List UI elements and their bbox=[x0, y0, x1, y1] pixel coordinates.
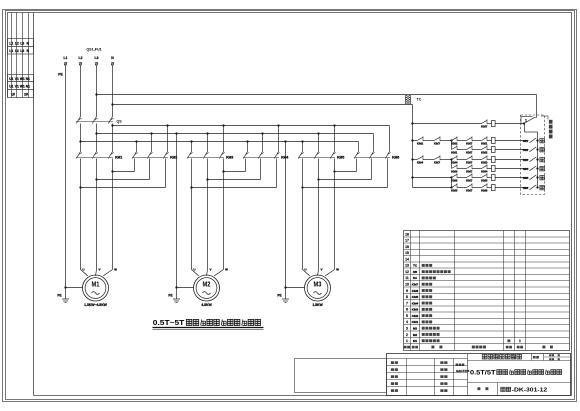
svg-text:KM7: KM7 bbox=[466, 151, 473, 155]
terminal strip XT incoming supply bbox=[8, 13, 34, 98]
pushbutton SB5 bbox=[523, 175, 539, 180]
wire PE down to M1 bbox=[65, 65, 67, 288]
svg-text:16: 16 bbox=[405, 245, 409, 249]
svg-text:KM4: KM4 bbox=[412, 301, 419, 305]
tap L3 to transformer primary (lower) bbox=[111, 103, 412, 105]
svg-text:L3: L3 bbox=[95, 56, 99, 60]
svg-text:KM6: KM6 bbox=[412, 289, 419, 293]
station name 皖东电力排灌站 bbox=[482, 354, 487, 359]
svg-text:N1: N1 bbox=[26, 85, 30, 89]
coil KM7 bbox=[492, 121, 496, 127]
ground symbol M2 bbox=[168, 288, 180, 303]
pushbutton SB3 bbox=[523, 157, 539, 162]
svg-text:KM7: KM7 bbox=[412, 283, 419, 287]
control row KM4 bbox=[451, 164, 491, 173]
svg-text:KM4: KM4 bbox=[281, 156, 288, 160]
svg-text:W: W bbox=[225, 268, 228, 272]
wire coil KM4 to button bbox=[495, 168, 529, 170]
svg-text:L2: L2 bbox=[15, 42, 19, 46]
svg-text:KM7: KM7 bbox=[434, 142, 441, 146]
svg-text:W1: W1 bbox=[20, 77, 25, 81]
title block texts bbox=[391, 354, 562, 393]
contactor KM5 bbox=[298, 124, 344, 159]
svg-text:KM4: KM4 bbox=[451, 161, 458, 165]
svg-text:1.5KW: 1.5KW bbox=[312, 303, 323, 307]
svg-text:N1: N1 bbox=[26, 77, 30, 81]
svg-text:V1: V1 bbox=[15, 77, 19, 81]
svg-text:W1: W1 bbox=[20, 85, 25, 89]
svg-text:SB4: SB4 bbox=[523, 167, 529, 171]
wire L2 to QS bbox=[96, 65, 98, 114]
svg-text:10: 10 bbox=[405, 283, 409, 287]
coil KM2 bbox=[492, 147, 496, 153]
svg-text:M1: M1 bbox=[413, 339, 418, 343]
control row KM5 bbox=[413, 173, 492, 182]
svg-text:PE: PE bbox=[277, 293, 281, 297]
svg-text:1.5KW~4.5KW: 1.5KW~4.5KW bbox=[84, 303, 108, 307]
motor M1 bbox=[83, 275, 109, 307]
terminal strip labels bbox=[9, 42, 30, 97]
drawing caption 0.5T~5T... bbox=[153, 318, 264, 329]
svg-text:W: W bbox=[336, 268, 339, 272]
svg-text:KM4: KM4 bbox=[417, 161, 424, 165]
wire coil KM1 to button bbox=[495, 140, 529, 142]
svg-text:L1: L1 bbox=[64, 56, 68, 60]
svg-text:SB6: SB6 bbox=[523, 186, 529, 190]
svg-text:KM5: KM5 bbox=[451, 189, 458, 193]
crossover wiring KM3/KM4 bbox=[190, 159, 276, 189]
crossover wiring KM5/KM6 bbox=[301, 159, 387, 189]
svg-text:M1: M1 bbox=[92, 280, 100, 289]
svg-text:KM1: KM1 bbox=[115, 156, 122, 160]
svg-text:M2: M2 bbox=[203, 280, 211, 289]
control left rail bbox=[411, 105, 413, 188]
svg-text:17: 17 bbox=[405, 239, 409, 243]
wire L3 to QS bbox=[112, 65, 114, 114]
svg-text:SA: SA bbox=[413, 276, 418, 280]
svg-text:KM3: KM3 bbox=[226, 156, 233, 160]
wires QS to KM1 bbox=[81, 124, 113, 149]
svg-text:9: 9 bbox=[406, 289, 408, 293]
svg-text:2: 2 bbox=[406, 333, 408, 337]
svg-text:1#: 1# bbox=[11, 93, 15, 97]
svg-text:L1: L1 bbox=[9, 49, 13, 53]
svg-text:1: 1 bbox=[406, 339, 408, 343]
ground symbol M1 bbox=[57, 288, 69, 303]
ground symbol M3 bbox=[277, 288, 289, 303]
contactor KM4 bbox=[243, 124, 288, 159]
pendant dashed box bbox=[521, 115, 545, 195]
pushbutton SB2 bbox=[523, 147, 539, 152]
PE wire M1 bbox=[64, 286, 82, 288]
coil KM5 bbox=[492, 175, 496, 181]
svg-text:M3: M3 bbox=[413, 326, 418, 330]
control row KM2 bbox=[451, 145, 491, 154]
crossover wiring KM1/KM2 bbox=[79, 159, 165, 189]
bus L3 top bbox=[111, 124, 389, 148]
svg-text:KM7: KM7 bbox=[466, 189, 473, 193]
svg-text:KM2: KM2 bbox=[412, 314, 419, 318]
svg-text:SB2: SB2 bbox=[523, 148, 529, 152]
motor feed wires M1 bbox=[81, 159, 113, 276]
control row KM7 bbox=[413, 119, 492, 128]
motor M3 bbox=[305, 275, 331, 307]
svg-text:KM7: KM7 bbox=[466, 161, 473, 165]
emergency switch SA "1" bbox=[521, 114, 537, 125]
coil KM6 bbox=[492, 185, 496, 191]
svg-text:11: 11 bbox=[405, 276, 409, 280]
svg-text:KM1: KM1 bbox=[451, 151, 458, 155]
svg-text:15: 15 bbox=[405, 251, 409, 255]
svg-text:3: 3 bbox=[406, 326, 408, 330]
svg-text:KM7: KM7 bbox=[466, 170, 473, 174]
svg-text:M3: M3 bbox=[314, 280, 322, 289]
svg-text:0.5T/5T: 0.5T/5T bbox=[470, 369, 496, 376]
control top wire drop to SA bbox=[536, 95, 538, 114]
svg-text:SB: SB bbox=[413, 270, 418, 274]
PE wire M3 bbox=[284, 140, 304, 288]
svg-text:U: U bbox=[304, 268, 306, 272]
interlock drop 6-7 bbox=[451, 178, 453, 188]
svg-text:1: 1 bbox=[519, 339, 521, 343]
svg-text:L1: L1 bbox=[9, 42, 13, 46]
contactor KM3 bbox=[187, 124, 233, 159]
svg-text:8: 8 bbox=[406, 295, 408, 299]
svg-text:KM7: KM7 bbox=[434, 161, 441, 165]
empty revision box bbox=[295, 359, 387, 393]
control row KM3 bbox=[413, 155, 492, 164]
pushbutton SB6 bbox=[523, 185, 539, 190]
svg-text:KM5: KM5 bbox=[412, 295, 419, 299]
svg-text:KM2: KM2 bbox=[451, 142, 458, 146]
coil KM1 bbox=[492, 138, 496, 144]
contactor KM1 bbox=[76, 149, 122, 160]
pushbutton SB1 bbox=[523, 138, 539, 143]
svg-text:PE: PE bbox=[58, 73, 63, 77]
svg-text:SB3: SB3 bbox=[523, 158, 529, 162]
svg-text:U: U bbox=[82, 268, 84, 272]
pushbutton SB4 bbox=[523, 166, 539, 171]
coil KM4 bbox=[492, 166, 496, 172]
main switch QS bbox=[76, 114, 114, 124]
svg-text:L2: L2 bbox=[15, 49, 19, 53]
svg-text:L3: L3 bbox=[20, 42, 24, 46]
svg-text:KM1: KM1 bbox=[412, 320, 419, 324]
svg-text:V1: V1 bbox=[15, 85, 19, 89]
control row KM1 bbox=[413, 136, 492, 145]
svg-text:6: 6 bbox=[406, 308, 408, 312]
svg-text:KM3: KM3 bbox=[412, 308, 419, 312]
svg-text:KM3: KM3 bbox=[481, 161, 488, 165]
svg-text:V: V bbox=[209, 268, 211, 272]
svg-text:V: V bbox=[320, 268, 322, 272]
coil KM3 bbox=[492, 157, 496, 163]
svg-text:KM6: KM6 bbox=[481, 189, 488, 193]
svg-text:KM2: KM2 bbox=[481, 151, 488, 155]
motor M2 bbox=[194, 275, 220, 307]
wire labels U V W M3 bbox=[304, 268, 339, 272]
wire labels U V W M2 bbox=[193, 268, 228, 272]
bus L1 bottom bbox=[79, 140, 358, 148]
transformer TC bbox=[405, 95, 421, 104]
svg-text:KM5: KM5 bbox=[337, 156, 344, 160]
svg-text:KM2: KM2 bbox=[417, 142, 424, 146]
svg-text:7: 7 bbox=[406, 301, 408, 305]
BOM header bbox=[404, 346, 553, 349]
motor feed wires M3 bbox=[303, 159, 335, 276]
direction labels 上下前后左右 bbox=[540, 138, 544, 189]
svg-text:KM3: KM3 bbox=[451, 170, 458, 174]
control row KM6 bbox=[413, 183, 492, 192]
svg-text:TC: TC bbox=[417, 98, 422, 102]
svg-text:KM4: KM4 bbox=[481, 170, 488, 174]
svg-text:2#: 2# bbox=[24, 93, 28, 97]
BOM parts table grid bbox=[404, 231, 570, 351]
motor feed wires M2 bbox=[192, 159, 224, 276]
svg-text:KM7: KM7 bbox=[466, 142, 473, 146]
wire L1 to QS bbox=[80, 65, 82, 114]
interlock drop 2-3 bbox=[451, 141, 453, 150]
svg-text:QS: QS bbox=[117, 120, 123, 124]
svg-text:-DK-301-12: -DK-301-12 bbox=[512, 387, 547, 393]
interlock drop 4-5 bbox=[451, 160, 453, 169]
svg-text:13: 13 bbox=[405, 264, 409, 268]
svg-text:14: 14 bbox=[405, 257, 409, 261]
svg-text:SB5: SB5 bbox=[523, 176, 529, 180]
svg-text:KM7: KM7 bbox=[481, 125, 488, 129]
svg-text:18: 18 bbox=[405, 232, 409, 236]
title block grid bbox=[387, 354, 571, 396]
svg-text:L3: L3 bbox=[20, 49, 24, 53]
svg-text:KM1: KM1 bbox=[481, 142, 488, 146]
wire coil KM3 to button bbox=[495, 159, 529, 161]
svg-text:M2: M2 bbox=[413, 333, 418, 337]
svg-text:U1: U1 bbox=[9, 85, 13, 89]
svg-text:4.5KW: 4.5KW bbox=[201, 303, 212, 307]
svg-text:SB1: SB1 bbox=[523, 139, 529, 143]
svg-text:PE: PE bbox=[57, 293, 61, 297]
pendant label 操纵电门 vertical with leader bbox=[541, 116, 553, 138]
wire labels U V W M1 bbox=[82, 268, 117, 272]
svg-text:U1: U1 bbox=[9, 77, 13, 81]
supply terminals L1 L2 L3 N bbox=[64, 56, 115, 65]
contactor KM2 bbox=[132, 124, 177, 159]
svg-text:L2: L2 bbox=[79, 56, 83, 60]
svg-text:V: V bbox=[98, 268, 100, 272]
svg-text:KM7: KM7 bbox=[466, 179, 473, 183]
svg-text:0.5T~5T: 0.5T~5T bbox=[153, 318, 185, 327]
svg-text:5: 5 bbox=[406, 314, 408, 318]
drawing number cell bbox=[477, 387, 480, 390]
svg-text:KM5: KM5 bbox=[481, 179, 488, 183]
svg-text:PE: PE bbox=[168, 293, 172, 297]
PE wire M2 bbox=[175, 132, 193, 288]
svg-text:W: W bbox=[114, 268, 117, 272]
wire coil KM6 to button bbox=[495, 187, 529, 189]
wire coil KM5 to button bbox=[495, 177, 529, 179]
pendant common rail bbox=[525, 124, 538, 188]
svg-text:KM6: KM6 bbox=[451, 179, 458, 183]
svg-text:KM6: KM6 bbox=[392, 156, 399, 160]
svg-text:12: 12 bbox=[405, 270, 409, 274]
svg-text:GA3: GA3 bbox=[456, 369, 462, 373]
svg-text:QS1,FU1: QS1,FU1 bbox=[86, 48, 101, 52]
wire coil KM7 to SA bbox=[495, 123, 524, 125]
bus L2 middle bbox=[95, 132, 373, 148]
svg-text:U: U bbox=[193, 268, 195, 272]
wire coil KM2 to button bbox=[495, 149, 529, 151]
BOM rows text bbox=[405, 232, 521, 343]
contactor KM6 bbox=[354, 149, 399, 160]
tap L2 to transformer primary / control top wire bbox=[95, 93, 536, 95]
svg-text:4: 4 bbox=[406, 320, 408, 324]
